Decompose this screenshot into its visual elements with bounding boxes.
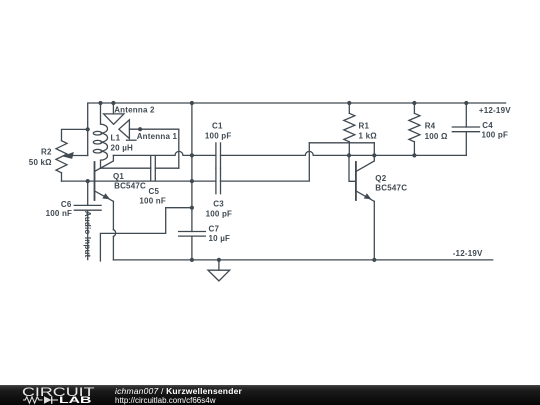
svg-text:+12-19V: +12-19V [479, 106, 511, 115]
ground [218, 260, 220, 270]
inductor L1 [101, 103, 108, 168]
transistor Q2 BC547C [355, 162, 357, 200]
transistor Q1 BC547C [94, 162, 96, 200]
R2 wiper arrow [70, 155, 88, 157]
CircuitLab logo [22, 386, 95, 399]
svg-text:L1: L1 [111, 133, 121, 142]
node dot C7-top tee [190, 206, 194, 210]
capacitor C5 [150, 156, 152, 181]
node dot Q2 collector branch [372, 153, 376, 157]
node dot ground tap on rail [217, 258, 221, 262]
node dot R2 top junction [86, 127, 90, 131]
svg-text:100 nF: 100 nF [46, 209, 73, 218]
wire R2 top lead [62, 129, 88, 140]
antenna ANT2 (Antenna 2) [112, 103, 114, 114]
wire L1 bottom to C5 [101, 167, 151, 169]
node dot C4 top on rail [464, 101, 468, 105]
wire vertical B (rail to C7) [191, 103, 193, 232]
svg-text:Audio Input: Audio Input [83, 211, 92, 258]
capacitor C3 [215, 168, 217, 194]
svg-text:C7: C7 [209, 225, 220, 234]
node dot R4 top on rail [412, 101, 416, 105]
svg-text:C3: C3 [213, 200, 224, 209]
footer url [115, 396, 215, 405]
node dot Q2 base branch [347, 153, 351, 157]
svg-text:Antenna 1: Antenna 1 [137, 132, 178, 141]
capacitor C7 [179, 231, 206, 233]
wire base net (R2 bottom to C3 left) [62, 180, 216, 182]
svg-text:BC547C: BC547C [375, 184, 407, 193]
svg-text:Antenna 2: Antenna 2 [114, 105, 155, 114]
wire audio input stub [87, 210, 89, 259]
svg-text:100 nF: 100 nF [139, 197, 166, 206]
node dot C1/C7 column on rail [190, 101, 194, 105]
node dot Q2 emitter on rail [372, 258, 376, 262]
node dot vertical B on mid wire [190, 153, 194, 157]
svg-text:10 µF: 10 µF [209, 234, 231, 243]
node dot R1 top on rail [347, 101, 351, 105]
svg-text:-12-19V: -12-19V [453, 249, 483, 258]
wire emitter bypass path [100, 208, 191, 261]
svg-text:BC547C: BC547C [114, 182, 146, 191]
node dot C6 tap [86, 179, 90, 183]
wire top supply rail [88, 103, 506, 156]
capacitor C4 [465, 103, 467, 127]
svg-text:100 pF: 100 pF [205, 131, 232, 140]
capacitor C6 [87, 181, 89, 205]
svg-text:C1: C1 [212, 121, 223, 130]
svg-text:R1: R1 [359, 122, 370, 131]
wire bottom supply rail [113, 259, 492, 261]
footer author/title [115, 386, 242, 396]
footer bar [0, 385, 540, 405]
svg-text:R4: R4 [425, 122, 436, 131]
capacitor C1 [215, 143, 217, 168]
wire antenna1 feed [129, 129, 178, 168]
svg-text:100 pF: 100 pF [482, 131, 509, 140]
node dot R4 bottom [412, 153, 416, 157]
node dot vertical B crossing base wire [190, 179, 194, 183]
svg-text:C4: C4 [482, 121, 493, 130]
node dot L1 top on rail [98, 101, 102, 105]
wire Q1 emitter to bottom rail (hops over bypass wire) [112, 201, 114, 229]
antenna ANT1 (Antenna 1) [119, 120, 129, 139]
svg-text:100 pF: 100 pF [206, 210, 233, 219]
svg-text:C6: C6 [61, 200, 72, 209]
wire C5 right to vertical A [155, 167, 179, 169]
node dot antenna2 feed on rail [111, 101, 115, 105]
wire R1 bottom feedback link [309, 142, 374, 144]
wire collector / main mid rail y=155.4 [113, 154, 175, 156]
resistor R4 [413, 103, 415, 113]
svg-text:50 kΩ: 50 kΩ [29, 158, 52, 167]
svg-text:100 Ω: 100 Ω [425, 132, 448, 141]
svg-text:1 kΩ: 1 kΩ [359, 132, 378, 141]
wire C3 right jog up [221, 143, 310, 181]
resistor R2 (potentiometer body) [56, 141, 67, 173]
resistor R1 [348, 103, 350, 113]
wire R2 bottom lead [61, 173, 63, 181]
wire Q2 base from mid rail [349, 155, 356, 181]
node dot antenna1 feed [138, 127, 142, 131]
wire Q2 emitter to bottom rail [373, 201, 375, 260]
svg-text:R2: R2 [41, 148, 52, 157]
svg-text:20 µH: 20 µH [111, 144, 134, 153]
svg-text:Q2: Q2 [375, 174, 386, 183]
node dot C7 bottom on rail [190, 258, 194, 262]
svg-text:C5: C5 [149, 187, 160, 196]
svg-text:Q1: Q1 [113, 172, 124, 181]
